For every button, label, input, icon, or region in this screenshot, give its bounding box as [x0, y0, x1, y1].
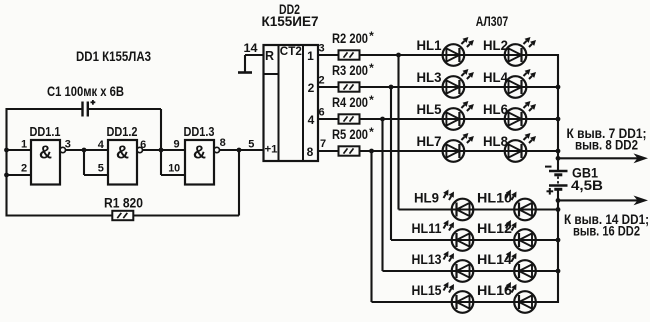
- node: row 1 to vertical drop: [396, 53, 401, 58]
- svg-text:DD1 К155ЛА3: DD1 К155ЛА3: [76, 48, 151, 64]
- svg-text:DD1.3: DD1.3: [184, 125, 215, 139]
- wire: node C to DD2 +1 input: [239, 149, 264, 151]
- svg-text:HL6: HL6: [483, 102, 508, 117]
- label 4,5В: [571, 178, 603, 193]
- label +1 input: [265, 143, 278, 155]
- svg-text:HL15: HL15: [412, 283, 442, 298]
- node: bus junction output arrow 2: [556, 198, 561, 203]
- resistor R2 200: [339, 50, 360, 59]
- LED HL11 (АЛ307): [443, 220, 473, 251]
- wire: pin 14 to common: [245, 55, 264, 72]
- svg-text:HL8: HL8: [483, 134, 508, 149]
- svg-text:HL4: HL4: [483, 70, 508, 85]
- logic gate DD1.3 (2-input NAND, К155ЛА3): [185, 140, 214, 185]
- node: row 3 to vertical drop: [380, 117, 385, 122]
- node A junction (pin3/pin4/pin5): [82, 148, 87, 153]
- node C junction (pin8/R1/DD2): [237, 148, 242, 153]
- wire: feedback vertical to R1: [238, 150, 240, 216]
- digit 4 (counter weight): [308, 113, 315, 127]
- pin number 6: [140, 139, 146, 151]
- svg-text:3: 3: [318, 43, 324, 55]
- node: bus junction y=209.5: [556, 207, 561, 212]
- wire: node A to DD1.2 pin4: [84, 149, 108, 151]
- label DD1.3: [184, 125, 215, 139]
- LED HL6 (АЛ307): [505, 101, 536, 130]
- label К155ИЕ7: [262, 14, 319, 29]
- svg-text:1: 1: [21, 139, 27, 151]
- svg-text:5: 5: [98, 162, 104, 174]
- label R4 200*: [332, 93, 374, 110]
- resistor R1 820: [112, 211, 133, 220]
- pin number 8: [220, 137, 226, 149]
- label HL6: [483, 102, 508, 117]
- svg-text:DD1.1: DD1.1: [30, 125, 61, 139]
- svg-text:&: &: [39, 143, 52, 163]
- wire: DD2 pin to R2: [318, 54, 339, 56]
- node: bus junction y=240: [556, 238, 561, 243]
- wire: row 1 horizontal: [359, 54, 558, 56]
- wire: vertical drop row 1 to row 5: [397, 55, 399, 210]
- LED HL5 (АЛ307): [443, 101, 474, 130]
- svg-text:2: 2: [308, 81, 315, 95]
- label R5 200*: [332, 125, 374, 142]
- svg-text:HL3: HL3: [417, 70, 442, 85]
- wire: DD1.1 input pin1: [7, 149, 32, 151]
- LED HL14 (АЛ307): [506, 251, 536, 282]
- svg-text:2: 2: [318, 75, 324, 87]
- svg-text:HL2: HL2: [483, 38, 508, 53]
- digit 2 (counter weight): [308, 81, 315, 95]
- svg-text:*: *: [369, 93, 374, 107]
- svg-text:8: 8: [307, 145, 314, 159]
- svg-text:CT2: CT2: [280, 44, 302, 58]
- svg-text:2: 2: [21, 162, 27, 174]
- svg-text:3: 3: [65, 139, 71, 151]
- svg-text:HL13: HL13: [412, 252, 442, 267]
- wire: node A drop to pin5: [84, 150, 108, 175]
- label DD1 К155ЛА3: [76, 48, 151, 64]
- inversion bubble of DD1.1: [60, 147, 65, 152]
- svg-text:HL7: HL7: [417, 134, 442, 149]
- logic gate DD1.2 (2-input NAND, К155ЛА3): [108, 140, 137, 185]
- svg-text:R5 200: R5 200: [332, 127, 368, 142]
- svg-text:R1 820: R1 820: [104, 196, 143, 211]
- inversion bubble of DD1.2: [137, 147, 142, 152]
- svg-text:R4 200: R4 200: [332, 95, 368, 110]
- wire: node B to DD1.3 pin9: [161, 149, 185, 151]
- pin number 10: [168, 162, 180, 174]
- label CT2: [280, 44, 302, 58]
- wire: DD1.1 output to node A: [66, 149, 85, 151]
- node: bus junction output arrow 1: [556, 156, 561, 161]
- label R2 200*: [332, 29, 374, 46]
- wire/arrow: to pin 14 DD1 and pin 16 DD2: [558, 196, 648, 206]
- svg-text:HL14: HL14: [477, 252, 513, 267]
- svg-text:6: 6: [318, 107, 324, 119]
- label DD1.2: [107, 125, 138, 139]
- battery GB1 (minus terminal top): [545, 167, 568, 195]
- node: DD1.1 pin2 junction: [4, 173, 9, 178]
- node: bus junction y=151: [556, 149, 561, 154]
- svg-text:4: 4: [308, 113, 315, 127]
- svg-text:DD1.2: DD1.2: [107, 125, 138, 139]
- LED HL9 (АЛ307): [443, 190, 473, 221]
- svg-text:выв. 16 DD2: выв. 16 DD2: [573, 224, 640, 239]
- wire: left bus vertical: [5, 108, 7, 217]
- label HL12: [477, 221, 512, 236]
- label HL5: [417, 102, 442, 117]
- pin number 5 (DD2 +1 input): [248, 139, 254, 151]
- label К выв. 14 DD1;: [564, 212, 649, 227]
- label HL13: [412, 252, 442, 267]
- label К выв. 7 DD1;: [567, 126, 647, 141]
- wire: DD1.2 output to node B: [143, 149, 162, 151]
- inversion bubble of DD1.3: [214, 147, 219, 152]
- LED HL1 (АЛ307): [443, 37, 474, 66]
- svg-text:6: 6: [140, 139, 146, 151]
- label R input: [265, 49, 274, 63]
- label DD2: [279, 2, 300, 17]
- LED HL3 (АЛ307): [443, 69, 474, 98]
- label HL8: [483, 134, 508, 149]
- label HL3: [417, 70, 442, 85]
- pin number 3: [65, 139, 71, 151]
- svg-text:7: 7: [320, 138, 326, 150]
- svg-text:+1: +1: [265, 143, 278, 155]
- label HL14: [477, 252, 513, 267]
- node: DD1.1 pin1 junction: [4, 148, 9, 153]
- svg-text:4,5В: 4,5В: [571, 178, 603, 193]
- resistor R4 200: [339, 114, 360, 123]
- wire: DD1.3 output to node C: [220, 149, 240, 151]
- wire: DD2 pin to R3: [318, 86, 339, 88]
- capacitor C1 (100мк x 6В, polarized): [83, 100, 96, 117]
- svg-text:1: 1: [307, 49, 314, 63]
- label HL10: [477, 191, 512, 206]
- svg-text:4: 4: [98, 139, 105, 151]
- pin number 2 (output): [318, 75, 324, 87]
- wire: vertical drop row 2 to row 6: [390, 87, 392, 240]
- node: row 2 to vertical drop: [389, 85, 394, 90]
- LED HL8 (АЛ307): [505, 133, 536, 162]
- IC DD2 К155ИЕ7 counter box: [264, 45, 319, 161]
- svg-text:14: 14: [244, 41, 258, 55]
- pin number 3 (output): [318, 43, 324, 55]
- svg-text:*: *: [369, 61, 374, 75]
- wire: vertical drop row 4 to row 8: [370, 151, 372, 302]
- digit 1 (counter weight): [307, 49, 314, 63]
- label HL16: [477, 283, 513, 298]
- svg-text:HL12: HL12: [477, 221, 512, 236]
- svg-text:R2 200: R2 200: [332, 31, 368, 46]
- svg-text:*: *: [369, 125, 374, 139]
- svg-text:HL1: HL1: [417, 38, 442, 53]
- svg-text:10: 10: [168, 162, 180, 174]
- LED HL16 (АЛ307): [506, 282, 536, 313]
- label C1: [47, 84, 124, 99]
- label выв. 16 DD2: [573, 224, 640, 239]
- pin number 6 (output): [318, 107, 324, 119]
- pin number 5: [98, 162, 104, 174]
- svg-text:R: R: [265, 49, 274, 63]
- pin number 7 (output): [320, 138, 326, 150]
- node: bus junction y=119: [556, 117, 561, 122]
- svg-text:5: 5: [248, 139, 254, 151]
- label HL9: [414, 191, 439, 206]
- node B junction (pin6/C1/pin9): [159, 148, 164, 153]
- digit 8 (counter weight): [307, 145, 314, 159]
- pin number 2: [21, 162, 27, 174]
- wire: right bus top section: [557, 54, 559, 171]
- label HL7: [417, 134, 442, 149]
- label DD1.1: [30, 125, 61, 139]
- pin number 14: [244, 41, 258, 55]
- wire: node B drop to pin10: [161, 150, 185, 175]
- svg-text:8: 8: [220, 137, 226, 149]
- wire: vertical drop row 3 to row 7: [381, 119, 383, 271]
- wire: C1 top wire left segment: [7, 108, 83, 110]
- svg-text:HL16: HL16: [477, 283, 513, 298]
- svg-text:&: &: [116, 143, 129, 163]
- svg-text:9: 9: [174, 139, 180, 151]
- wire: row 8 horizontal: [372, 301, 559, 303]
- wire: C1 to DD1.2 output (vertical): [160, 109, 162, 150]
- svg-text:HL5: HL5: [417, 102, 442, 117]
- wire: DD1.1 input pin2: [7, 174, 32, 176]
- label HL2: [483, 38, 508, 53]
- label HL1: [417, 38, 442, 53]
- svg-text:АЛ307: АЛ307: [476, 14, 509, 29]
- pin number 9: [174, 139, 180, 151]
- node: bus junction y=87: [556, 85, 561, 90]
- svg-text:&: &: [193, 143, 206, 163]
- label HL4: [483, 70, 508, 85]
- wire: bottom feedback wire: [7, 214, 240, 216]
- wire: DD2 pin to R5: [318, 150, 339, 152]
- pin number 1: [21, 139, 27, 151]
- wire: row 7 horizontal: [383, 270, 559, 272]
- LED HL7 (АЛ307): [443, 133, 474, 162]
- wire: row 3 horizontal: [359, 118, 558, 120]
- ground (common) symbol: [238, 71, 252, 74]
- svg-text:выв. 8 DD2: выв. 8 DD2: [575, 138, 638, 153]
- LED HL4 (АЛ307): [505, 69, 536, 98]
- label GB1: [572, 166, 598, 181]
- wire/arrow: to pin 7 DD1 and pin 8 DD2: [558, 153, 648, 163]
- node: bus junction y=271: [556, 269, 561, 274]
- wire: DD2 pin to R4: [318, 118, 339, 120]
- label выв. 8 DD2: [575, 138, 638, 153]
- LED HL12 (АЛ307): [506, 220, 536, 251]
- label R1 820: [104, 196, 143, 211]
- label HL15: [412, 283, 442, 298]
- wire: row 2 horizontal: [359, 86, 558, 88]
- svg-text:R3 200: R3 200: [332, 63, 368, 78]
- pin number 4: [98, 139, 105, 151]
- svg-text:К155ИЕ7: К155ИЕ7: [262, 14, 319, 29]
- resistor R5 200: [339, 146, 360, 155]
- svg-text:HL10: HL10: [477, 191, 512, 206]
- svg-text:*: *: [369, 29, 374, 43]
- label HL11: [412, 221, 442, 236]
- svg-text:HL11: HL11: [412, 221, 442, 236]
- LED HL2 (АЛ307): [505, 37, 536, 66]
- wire: row 5 horizontal: [399, 208, 559, 210]
- wire: row 6 horizontal: [391, 239, 558, 241]
- resistor R3 200: [339, 82, 360, 91]
- LED HL10 (АЛ307): [506, 190, 536, 221]
- label R3 200*: [332, 61, 374, 78]
- wire: C1 top wire right segment: [89, 108, 161, 110]
- node: row 4 to vertical drop: [369, 149, 374, 154]
- LED HL13 (АЛ307): [443, 251, 473, 282]
- svg-text:HL9: HL9: [414, 191, 439, 206]
- wire: right bus bottom section: [557, 189, 559, 303]
- LED HL15 (АЛ307): [443, 282, 473, 313]
- svg-text:C1 100мк х 6В: C1 100мк х 6В: [47, 84, 124, 99]
- logic gate DD1.1 (2-input NAND, К155ЛА3): [31, 140, 60, 185]
- label АЛ307: [476, 14, 509, 29]
- wire: row 4 horizontal: [359, 150, 558, 152]
